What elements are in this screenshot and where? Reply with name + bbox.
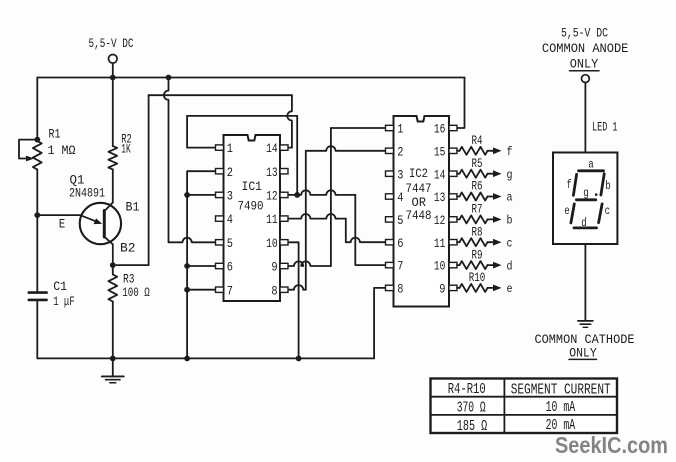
svg-text:12: 12 (434, 213, 446, 228)
table R4-R10 segment current (431, 379, 618, 434)
wire IC1 pin 12 (QA) to IC2 pin 7 (288, 190, 386, 265)
label C1 value (53, 279, 74, 309)
svg-text:11: 11 (266, 212, 278, 227)
svg-text:5: 5 (227, 236, 233, 251)
svg-text:IC2: IC2 (409, 166, 428, 181)
wire ground bus (bottom rail) (37, 356, 374, 362)
svg-text:R1: R1 (49, 127, 61, 142)
svg-text:8: 8 (271, 283, 277, 298)
wire IC1 pin 10 to ground bus (288, 242, 299, 358)
svg-text:E: E (59, 216, 66, 231)
op-amp IC2 7447 OR 7448 decoder/driver (386, 116, 458, 307)
svg-text:100 Ω: 100 Ω (122, 285, 150, 300)
svg-text:R10: R10 (469, 270, 486, 285)
capacitor C1 1 uF (29, 293, 47, 300)
wire anode terminal to LED 1 (584, 83, 586, 153)
svg-text:a: a (507, 191, 513, 205)
svg-text:12: 12 (266, 189, 278, 204)
resistor R5 segment g (457, 170, 502, 178)
svg-text:R7: R7 (472, 202, 483, 217)
label R2 value (121, 132, 132, 157)
svg-text:b: b (507, 214, 513, 228)
svg-text:13: 13 (266, 165, 278, 180)
svg-text:f: f (507, 145, 513, 159)
svg-text:2: 2 (397, 144, 403, 159)
svg-text:6: 6 (227, 260, 233, 275)
svg-text:ONLY: ONLY (570, 57, 599, 72)
wire B2 to IC1 pin 14 (clock) (113, 95, 292, 265)
svg-text:C1: C1 (53, 279, 67, 294)
svg-text:1: 1 (397, 122, 403, 137)
node B2 junction (110, 262, 116, 268)
transistor Q1 2N4891 unijunction (80, 203, 121, 266)
svg-text:R5: R5 (472, 156, 483, 171)
svg-text:9: 9 (271, 260, 277, 275)
svg-text:IC1: IC1 (242, 179, 263, 194)
svg-text:d: d (581, 217, 587, 230)
svg-text:LED 1: LED 1 (592, 120, 618, 135)
svg-text:7447: 7447 (406, 181, 432, 196)
svg-text:4: 4 (397, 190, 403, 205)
svg-text:R4-R10: R4-R10 (448, 381, 486, 398)
op-amp IC1 7490 decade counter (216, 135, 289, 301)
wire IC2 pin 8 to ground bus (374, 288, 385, 359)
node VCC supply terminal 5,5-V DC (89, 36, 134, 78)
svg-text:5,5-V DC: 5,5-V DC (561, 26, 608, 41)
svg-text:R8: R8 (472, 224, 483, 239)
svg-text:c: c (507, 236, 513, 250)
svg-text:10 mA: 10 mA (546, 399, 576, 416)
svg-text:g: g (583, 187, 589, 200)
label R1 value (48, 127, 76, 159)
LED 1 seven-segment display (553, 153, 617, 245)
svg-text:d: d (507, 259, 513, 273)
svg-text:R9: R9 (472, 247, 483, 262)
svg-text:10: 10 (434, 259, 446, 274)
resistor R3 100 ohm (108, 265, 117, 358)
svg-text:7: 7 (227, 283, 233, 298)
svg-text:13: 13 (434, 190, 446, 205)
resistor R2 1K (108, 78, 117, 203)
svg-text:14: 14 (266, 141, 278, 156)
label R3 value (122, 272, 150, 301)
svg-text:3: 3 (227, 189, 233, 204)
svg-text:e: e (507, 282, 513, 296)
svg-text:COMMON CATHODE: COMMON CATHODE (535, 332, 635, 347)
svg-text:R6: R6 (472, 179, 483, 194)
svg-text:6: 6 (397, 236, 403, 251)
wire left branch vertical (R1/C1 leg) (36, 78, 38, 359)
wire LED 1 to cathode ground (584, 244, 586, 320)
svg-text:1 μF: 1 μF (53, 294, 74, 309)
svg-text:7490: 7490 (238, 199, 264, 214)
label Q1 2N4891 (69, 173, 105, 201)
IC1 pin numbers (227, 141, 278, 298)
svg-text:e: e (564, 205, 570, 218)
wire IC1 pin 9 (QB) to IC2 pin 1 (288, 128, 386, 266)
svg-text:b: b (605, 180, 611, 193)
svg-text:185 Ω: 185 Ω (457, 418, 488, 435)
wire IC1 reset pins 2,3,6,7 to ground bus (184, 171, 215, 358)
wire emitter to left leg, node E (34, 212, 80, 218)
IC2 pin numbers (397, 122, 445, 297)
resistor R8 segment c (457, 238, 502, 246)
svg-text:COMMON ANODE: COMMON ANODE (542, 41, 629, 56)
svg-text:f: f (567, 179, 572, 192)
svg-text:ONLY: ONLY (569, 346, 597, 361)
svg-text:4: 4 (227, 212, 233, 227)
wire VCC to IC2 pin 16 (457, 78, 465, 129)
svg-text:B2: B2 (120, 241, 136, 256)
resistor R4 segment f (457, 147, 502, 155)
svg-text:14: 14 (434, 167, 446, 182)
svg-text:1K: 1K (121, 141, 131, 156)
wire VCC to IC1 pin 5 (164, 78, 216, 243)
resistor R10 segment e (457, 284, 502, 292)
resistor R1 1 Megohm (rheostat) (19, 137, 42, 170)
svg-text:16: 16 (434, 122, 446, 137)
svg-text:3: 3 (397, 167, 403, 182)
svg-text:R4: R4 (472, 133, 483, 148)
svg-text:2: 2 (227, 165, 233, 180)
ground symbol (main) (102, 358, 124, 382)
label COMMON CATHODE ONLY (535, 332, 635, 361)
ground symbol (common cathode) (578, 321, 593, 327)
svg-text:7448: 7448 (406, 208, 432, 223)
wire VCC top rail (37, 75, 464, 81)
svg-text:c: c (605, 205, 611, 218)
svg-text:5,5-V DC: 5,5-V DC (89, 36, 134, 51)
resistor R7 segment b (457, 215, 502, 223)
svg-text:B1: B1 (126, 199, 140, 214)
svg-text:5: 5 (397, 213, 403, 228)
wire IC1 pin 11 (QD) to IC2 pin 6 (288, 214, 386, 242)
wire IC1 pin 1 to pin 12 (cascade) (187, 116, 300, 198)
svg-text:15: 15 (434, 144, 446, 159)
svg-text:9: 9 (439, 282, 445, 297)
svg-text:SEGMENT CURRENT: SEGMENT CURRENT (511, 382, 611, 399)
svg-text:a: a (588, 159, 594, 172)
svg-text:7: 7 (397, 259, 403, 274)
svg-text:1 MΩ: 1 MΩ (48, 143, 76, 158)
wire IC1 pin 8 (QC) to IC2 pin 2 (288, 146, 386, 290)
svg-text:1: 1 (227, 141, 233, 156)
resistor R6 segment a (457, 193, 502, 201)
svg-text:2N4891: 2N4891 (69, 186, 105, 201)
svg-text:11: 11 (434, 236, 446, 251)
svg-text:10: 10 (266, 236, 278, 251)
node anode supply terminal: 5,5-V DC COMMON ANODE ONLY (542, 26, 629, 83)
resistor R9 segment d (457, 261, 502, 269)
svg-text:8: 8 (397, 282, 403, 297)
svg-text:SeekIC.com: SeekIC.com (555, 432, 668, 458)
svg-text:g: g (507, 168, 513, 182)
svg-text:370 Ω: 370 Ω (457, 400, 486, 417)
